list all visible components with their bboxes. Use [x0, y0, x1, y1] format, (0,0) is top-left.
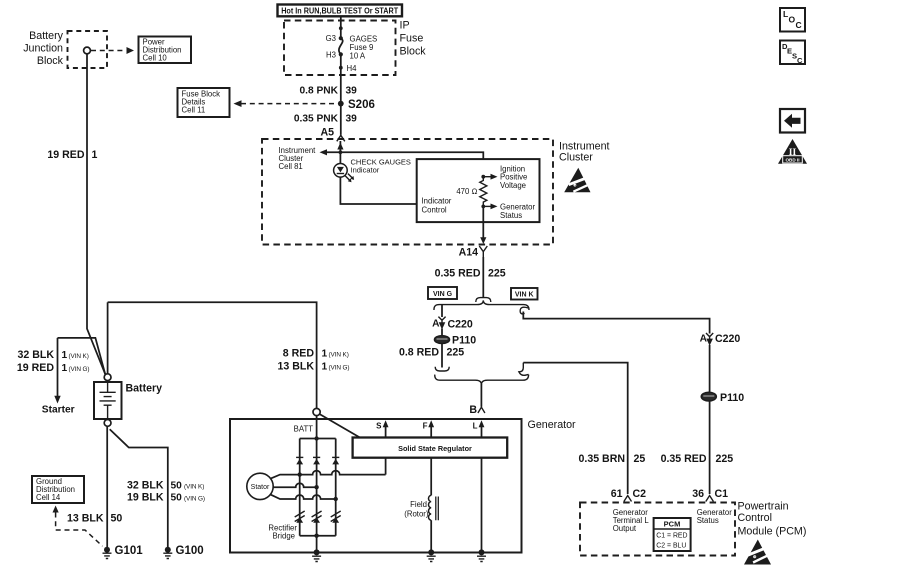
wire label 19 RED 1 — [47, 149, 97, 161]
diode top left — [296, 457, 303, 464]
wire label 0.8 RED 225 — [399, 347, 464, 359]
svg-text:Bridge: Bridge — [272, 532, 295, 541]
grommet P110 (right) — [701, 392, 744, 404]
junction dot phase 2 — [314, 485, 318, 489]
wire 0.8 RED 225 — [441, 344, 443, 368]
svg-text:L: L — [783, 9, 788, 19]
junction dot bottom rail — [314, 534, 318, 538]
rectifier center column — [316, 439, 318, 553]
power distribution cell 10 box — [139, 37, 192, 64]
case ground L — [477, 556, 486, 561]
VIN G tag box — [428, 287, 457, 299]
svg-text:BATT: BATT — [294, 425, 314, 434]
wire VIN K branch lower run to PCM — [523, 363, 627, 494]
svg-text:50: 50 — [111, 513, 123, 525]
svg-text:(VIN G): (VIN G) — [329, 365, 350, 372]
ground distribution cell 14 box — [32, 476, 84, 503]
svg-text:13 BLK: 13 BLK — [278, 361, 315, 373]
wire VIN G branch to C220 — [441, 305, 443, 317]
svg-text:P110: P110 — [452, 335, 476, 347]
stator phase 1 wire — [270, 471, 386, 479]
svg-text:C220: C220 — [448, 319, 473, 331]
generator terminal L output label — [613, 508, 650, 533]
svg-text:Output: Output — [613, 524, 637, 533]
svg-text:Indicator: Indicator — [422, 197, 452, 206]
svg-text:IP: IP — [400, 20, 410, 32]
svg-text:10 A: 10 A — [350, 52, 366, 61]
IP fuse block label — [400, 20, 427, 58]
rectifier bridge label — [268, 524, 297, 541]
wire L to ground — [481, 458, 483, 553]
battery junction block terminal — [84, 47, 91, 54]
stator — [247, 473, 273, 499]
splice S206 — [338, 101, 344, 107]
svg-text:P110: P110 — [720, 392, 744, 404]
svg-text:225: 225 — [488, 268, 506, 280]
case ground dot field — [428, 549, 434, 555]
DESC button — [780, 41, 805, 66]
fuse terminal G3 — [339, 36, 343, 40]
wire label 0.35 RED 225 — [435, 268, 506, 280]
svg-text:8 RED: 8 RED — [283, 348, 315, 360]
wire BATT to rectifier — [316, 416, 318, 439]
svg-text:Junction: Junction — [23, 43, 63, 55]
wire LED to indicator control — [340, 177, 416, 204]
svg-text:Battery: Battery — [29, 30, 64, 42]
LED indicator CHECK GAUGES — [334, 164, 355, 183]
fuse block details cell 11 box — [178, 88, 230, 117]
svg-text:0.8 PNK: 0.8 PNK — [299, 86, 338, 97]
wire to cell 81 and resistor feed — [327, 152, 484, 176]
svg-text:A: A — [432, 319, 440, 330]
generator box — [230, 419, 522, 553]
svg-text:Block: Block — [400, 46, 427, 58]
svg-text:0.35 BRN: 0.35 BRN — [578, 453, 625, 465]
svg-text:G101: G101 — [115, 545, 144, 557]
svg-text:Voltage: Voltage — [500, 181, 526, 190]
starter branch wire — [58, 338, 106, 375]
svg-text:36: 36 — [692, 488, 704, 500]
wire resistor to A14 — [482, 206, 484, 238]
wire label 13 BLK 1 (VIN G) — [278, 361, 350, 373]
ground G100 — [163, 545, 203, 559]
CHECK GAUGES indicator label — [351, 157, 411, 174]
wire battery to generator BATT — [108, 302, 317, 408]
wire H3 to H4 — [340, 54, 342, 103]
battery junction block label — [23, 30, 63, 67]
arrowhead to power distribution — [127, 47, 135, 54]
fuse GAGES Fuse 9 10A (S-curve element) — [339, 38, 343, 54]
node generator status — [481, 203, 535, 220]
wire generator L feed — [480, 384, 482, 407]
svg-text:S: S — [376, 422, 382, 431]
svg-text:C: C — [796, 20, 802, 30]
junction dot at indicator feed — [339, 150, 343, 154]
svg-text:A5: A5 — [320, 127, 334, 139]
wire label 32 BLK 50 (VIN K) — [127, 480, 204, 492]
fuse terminal H3 — [339, 52, 343, 56]
arrowhead to fuse block details — [234, 100, 242, 107]
terminal H4 — [339, 66, 343, 70]
ESD symbol (PCM) — [744, 540, 771, 565]
terminal BATT — [294, 408, 321, 433]
wire 19 RED from junction block to battery — [87, 54, 105, 375]
svg-text:B: B — [469, 404, 477, 416]
wire VIN K branch upper run — [523, 312, 709, 334]
svg-text:Battery: Battery — [126, 383, 163, 395]
svg-text:Hot In RUN,BULB TEST Or START: Hot In RUN,BULB TEST Or START — [281, 5, 399, 15]
svg-text:Starter: Starter — [42, 405, 75, 416]
svg-text:Solid State Regulator: Solid State Regulator — [398, 444, 472, 453]
OBD II symbol — [778, 139, 807, 164]
svg-text:1: 1 — [322, 362, 328, 373]
instrument cluster cell 81 label — [279, 146, 317, 171]
entry wire A5 into cluster — [339, 141, 341, 164]
svg-text:G100: G100 — [176, 545, 204, 557]
ground G101 — [103, 545, 144, 559]
powertrain control module (dashed outline) — [580, 503, 735, 556]
wire C220 to P110 (left) — [441, 329, 443, 336]
case ground center — [312, 556, 321, 561]
connector C220 pin A (right) — [700, 333, 741, 346]
avalanche diode bottom left — [295, 511, 305, 523]
svg-text:C220: C220 — [715, 333, 740, 345]
svg-text:61: 61 — [611, 488, 623, 500]
svg-text:A14: A14 — [459, 247, 479, 259]
svg-text:0.35 RED: 0.35 RED — [435, 268, 481, 280]
wire C220 to P110 (right) — [709, 345, 711, 392]
svg-text:(VIN K): (VIN K) — [184, 484, 204, 491]
svg-text:50: 50 — [171, 493, 183, 504]
svg-text:470 Ω: 470 Ω — [456, 187, 477, 196]
svg-text:39: 39 — [346, 86, 358, 97]
battery negative terminal — [104, 420, 111, 427]
PCM connector legend box — [654, 518, 691, 551]
wire 0.35 RED 225 from A14 — [482, 257, 484, 297]
svg-text:C1 = RED: C1 = RED — [656, 533, 687, 540]
wire end foot (VIN G branch bottom) — [435, 367, 449, 371]
battery junction block (dashed outline) — [68, 31, 108, 68]
indicator control box — [417, 159, 540, 222]
svg-text:Module (PCM): Module (PCM) — [738, 526, 807, 538]
svg-text:225: 225 — [447, 347, 465, 359]
ESD symbol (instrument cluster) — [564, 168, 591, 193]
wire 0.35 RED 225 to PCM — [709, 401, 711, 494]
wire 0.35 PNK to A5 — [340, 104, 342, 135]
svg-text:C2 = BLU: C2 = BLU — [656, 543, 686, 550]
wire field coil to ground — [430, 520, 432, 552]
svg-text:13 BLK: 13 BLK — [67, 513, 104, 525]
wire battery vertical feed — [107, 302, 109, 373]
connector C1 pin 36 — [692, 488, 728, 502]
wire battery negative to G100 — [110, 429, 168, 547]
back arrow button — [780, 109, 805, 133]
case ground dot L — [479, 549, 485, 555]
svg-text:VIN K: VIN K — [515, 292, 534, 299]
resistor 470 ohm — [456, 177, 486, 207]
wire label 13 BLK 50 — [67, 513, 122, 525]
terminal F arrow — [423, 420, 434, 437]
svg-text:225: 225 — [716, 453, 734, 465]
junction dot BATT / top rail — [314, 436, 318, 440]
svg-text:32 BLK: 32 BLK — [127, 480, 164, 492]
grommet P110 (left) — [434, 335, 476, 347]
svg-text:32 BLK: 32 BLK — [18, 349, 55, 361]
svg-text:1: 1 — [62, 363, 68, 374]
svg-text:F: F — [423, 422, 428, 431]
rectifier right column — [335, 439, 337, 536]
svg-text:Cell 14: Cell 14 — [36, 493, 61, 502]
battery positive terminal — [104, 374, 111, 381]
svg-text:C1: C1 — [715, 488, 729, 500]
node ignition positive voltage — [481, 164, 527, 190]
svg-text:0.35 RED: 0.35 RED — [661, 453, 707, 465]
terminal L arrow — [473, 420, 485, 437]
exit arrow down at cluster border — [480, 237, 486, 244]
connector C220 pin A (left) — [432, 317, 473, 331]
svg-text:Stator: Stator — [251, 484, 270, 491]
svg-text:H3: H3 — [326, 51, 336, 60]
svg-text:Cell 81: Cell 81 — [279, 162, 303, 171]
svg-text:(VIN K): (VIN K) — [329, 352, 349, 359]
svg-text:L: L — [473, 422, 478, 431]
solid state regulator box — [353, 438, 508, 458]
svg-text:19 BLK: 19 BLK — [127, 492, 164, 504]
svg-text:G3: G3 — [326, 34, 336, 43]
dashed reference wire to power distribution — [91, 50, 126, 52]
svg-text:O: O — [789, 15, 796, 25]
svg-text:A: A — [700, 334, 708, 345]
wire battery negative to G101 — [106, 426, 108, 547]
arrowhead to instrument cluster cell 81 — [320, 149, 328, 155]
svg-text:0.35 PNK: 0.35 PNK — [294, 114, 339, 125]
svg-text:C2: C2 — [633, 488, 647, 500]
wire label 0.8 PNK 39 — [299, 86, 357, 97]
svg-text:PCM: PCM — [664, 520, 681, 529]
svg-text:Cell 10: Cell 10 — [143, 54, 168, 63]
wire S to stator phase 1 — [385, 458, 387, 475]
svg-text:Control: Control — [738, 512, 772, 524]
instrument cluster (dashed outline) — [262, 139, 553, 245]
rectifier left column — [299, 439, 301, 536]
svg-text:Cell 11: Cell 11 — [182, 106, 206, 115]
IP fuse block (dashed outline) — [284, 21, 396, 76]
diode top center — [313, 457, 320, 464]
wire label 8 RED 1 (VIN K) — [283, 348, 349, 360]
svg-text:Fuse: Fuse — [400, 33, 424, 45]
starter feed wire — [57, 338, 59, 397]
arrow to starter — [54, 396, 60, 404]
wire F to field coil — [430, 458, 432, 496]
svg-text:Powertrain: Powertrain — [738, 501, 789, 513]
wire from header into fuse block — [340, 16, 342, 38]
case ground dot center — [314, 549, 320, 555]
wire label 19 BLK 50 (VIN G) — [127, 492, 205, 504]
case ground field — [427, 556, 436, 561]
svg-text:0.8 RED: 0.8 RED — [399, 347, 439, 359]
wire end foot at A14 branch — [476, 298, 491, 302]
wire label 0.35 PNK 39 — [294, 114, 357, 125]
wire label 19 RED 1 (VIN G) — [17, 362, 90, 374]
svg-text:50: 50 — [171, 481, 183, 492]
connector B — [469, 404, 485, 416]
junction dot phase 1 — [298, 472, 302, 476]
svg-text:Cluster: Cluster — [559, 152, 593, 164]
terminal S arrow — [376, 420, 388, 437]
svg-text:(VIN G): (VIN G) — [69, 366, 90, 373]
svg-text:Block: Block — [37, 55, 64, 67]
splice option brace (bottom) — [435, 375, 529, 385]
PCM label — [738, 501, 807, 538]
junction dot — [339, 26, 343, 30]
svg-text:1: 1 — [62, 350, 68, 361]
svg-text:1: 1 — [322, 349, 328, 360]
svg-text:VIN G: VIN G — [433, 291, 453, 298]
svg-text:Control: Control — [422, 206, 447, 215]
stator phase 3 wire — [270, 494, 336, 499]
svg-text:Generator: Generator — [528, 419, 577, 431]
diode top right — [332, 457, 339, 464]
svg-text:(VIN K): (VIN K) — [69, 353, 89, 360]
svg-text:Status: Status — [500, 211, 522, 220]
battery B1 — [94, 381, 162, 419]
dashed reference wire to G101 — [56, 513, 103, 547]
svg-text:H4: H4 — [347, 64, 358, 73]
wire label 32 BLK 1 (VIN K) — [18, 349, 89, 361]
avalanche diode bottom right — [331, 511, 341, 523]
junction dot phase 3 — [334, 497, 338, 501]
svg-text:(Rotor): (Rotor) — [404, 510, 429, 519]
hot in run header box — [278, 5, 403, 17]
connector C2 pin 61 — [611, 488, 646, 502]
generator status label — [697, 508, 733, 525]
svg-text:Field: Field — [410, 500, 427, 509]
avalanche diode bottom center — [312, 511, 322, 523]
svg-text:19 RED: 19 RED — [47, 149, 84, 161]
dashed reference wire to fuse block details — [241, 103, 337, 105]
splice option brace (top) — [434, 300, 529, 310]
rectifier bottom rail — [300, 535, 336, 537]
svg-text:Indicator: Indicator — [351, 166, 380, 175]
wire label 0.35 RED 225 (right) — [661, 453, 734, 465]
svg-text:C: C — [797, 56, 803, 65]
LOC button — [780, 8, 805, 32]
svg-text:39: 39 — [346, 114, 358, 125]
svg-text:OBD II: OBD II — [785, 158, 799, 163]
wire label 0.35 BRN 25 — [578, 453, 645, 465]
svg-text:(VIN G): (VIN G) — [184, 496, 205, 503]
arrowhead to ground distribution — [53, 506, 59, 513]
stator phase 2 wire — [273, 483, 316, 487]
VIN K tag box — [511, 288, 538, 300]
svg-text:19 RED: 19 RED — [17, 362, 54, 374]
svg-text:25: 25 — [634, 453, 646, 465]
field (rotor) coil — [404, 495, 438, 520]
svg-text:Status: Status — [697, 516, 719, 525]
entry arrow up — [337, 143, 343, 150]
instrument cluster label — [559, 141, 610, 164]
rectifier top rail — [300, 438, 336, 440]
svg-text:S206: S206 — [348, 99, 375, 111]
wire BATT to regulator — [319, 414, 362, 439]
svg-text:1: 1 — [92, 149, 98, 161]
